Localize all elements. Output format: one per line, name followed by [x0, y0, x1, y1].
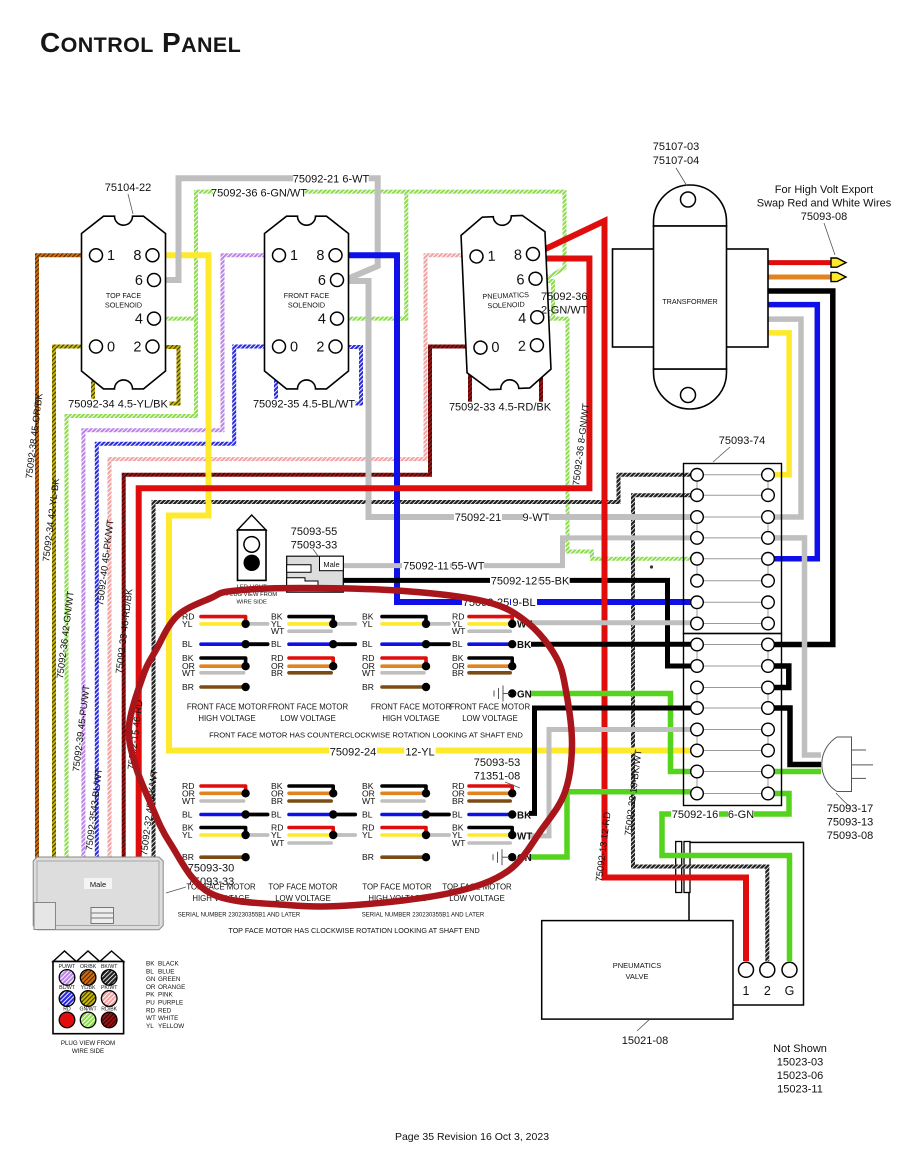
svg-text:BK: BK [146, 961, 155, 968]
wire 75092-16 6-GN green terminal row16 to valve G [662, 794, 790, 962]
wire label 75092-24 12-YL [329, 747, 377, 758]
wire black jumper terminal rows 10-11 right [774, 666, 789, 688]
terminal row 15 screws [691, 765, 704, 778]
svg-text:75093-17: 75093-17 [827, 803, 874, 815]
FRONT FACE pin 0 [273, 340, 286, 353]
svg-text:0: 0 [491, 340, 500, 356]
svg-text:PURPLE: PURPLE [158, 1000, 183, 1007]
wire 75092-24 12-YL yellow TOP pin8 to terminal row14 [158, 255, 691, 750]
svg-text:LOW VOLTAGE: LOW VOLTAGE [449, 894, 505, 903]
svg-text:0: 0 [290, 340, 298, 356]
plug pin RD [59, 1012, 75, 1028]
terminal column link rows 11-12 [696, 688, 698, 709]
wire label 75092-21 9-WT [454, 512, 502, 523]
svg-text:6: 6 [135, 273, 143, 289]
svg-text:0: 0 [107, 340, 115, 356]
svg-text:PK/WT: PK/WT [101, 985, 118, 991]
svg-text:FRONT FACE MOTOR: FRONT FACE MOTOR [187, 703, 268, 712]
transformer top mounting hole [681, 192, 696, 207]
wire gray WT splice lower to terminal row13 [529, 730, 691, 836]
svg-text:SERIAL NUMBER 230230355B1 AND: SERIAL NUMBER 230230355B1 AND LATER [362, 913, 485, 919]
svg-text:75093-55: 75093-55 [291, 526, 338, 538]
svg-text:RD: RD [63, 1006, 71, 1012]
TOP FACE pin 0 [90, 340, 103, 353]
TOP FACE pin 2 [146, 340, 159, 353]
svg-text:TOP FACE MOTOR: TOP FACE MOTOR [362, 883, 432, 892]
svg-text:71351-08: 71351-08 [474, 771, 521, 783]
transformer bottom mounting hole [681, 388, 696, 403]
svg-text:WT: WT [271, 838, 285, 848]
AC plug prong 3 [852, 777, 867, 779]
svg-text:YL: YL [146, 1023, 154, 1030]
svg-text:WIRE SIDE: WIRE SIDE [72, 1048, 104, 1055]
wire green terminal row15 to AC plug [774, 769, 821, 775]
wire green GN splice upper to terminal row15 [531, 694, 691, 772]
svg-text:75092-21 6-WT: 75092-21 6-WT [293, 174, 370, 186]
LED light symbol [238, 515, 267, 530]
svg-text:FRONT FACE: FRONT FACE [284, 291, 330, 300]
svg-text:GN/WT: GN/WT [79, 1006, 97, 1012]
wire 75092-11 55-WT gray male connector to terminal row4 [343, 538, 691, 566]
terminal row 2 screws [691, 489, 704, 502]
svg-text:RED: RED [158, 1007, 172, 1014]
svg-text:BR: BR [452, 796, 464, 806]
svg-text:BK/WT: BK/WT [101, 964, 118, 970]
svg-text:WT: WT [452, 838, 466, 848]
svg-text:PNEUMATICS: PNEUMATICS [613, 961, 662, 970]
terminal row 5 [703, 558, 762, 560]
wire 75092-13 12-RD red PNEU pin8 to valve terminal 1 [539, 221, 746, 961]
AC plug prong 2 [852, 764, 874, 766]
svg-text:GN: GN [146, 976, 156, 983]
svg-text:Swap Red and White Wires: Swap Red and White Wires [757, 198, 892, 210]
svg-text:75092-16: 75092-16 [672, 809, 719, 821]
svg-text:4: 4 [518, 311, 527, 327]
svg-text:BL: BL [452, 639, 463, 649]
wire 6-GN/WT top run between solenoids [196, 190, 565, 194]
wire label 75092-25 9-BL [462, 597, 510, 608]
wire GN/WT drop FRONT pin4 [344, 190, 406, 319]
svg-text:PINK: PINK [158, 992, 173, 999]
svg-text:BK: BK [517, 811, 531, 822]
valve inline connector plate 2 [684, 842, 690, 893]
svg-text:75092-13 12-RD: 75092-13 12-RD [594, 811, 613, 882]
svg-text:75092-36: 75092-36 [541, 291, 588, 303]
terminal row 11 [703, 687, 762, 689]
svg-text:75092-11: 75092-11 [403, 561, 449, 573]
plug pin OR/BK [80, 970, 96, 986]
svg-text:BK: BK [517, 640, 531, 651]
svg-text:1: 1 [743, 984, 750, 998]
wire 75092-39 45-PU/WT FRONT pin1 to male plug [83, 255, 272, 858]
svg-text:WT: WT [271, 626, 285, 636]
svg-text:WHITE: WHITE [158, 1015, 178, 1022]
svg-text:BL/WT: BL/WT [59, 985, 76, 991]
terminal row 13 screws [691, 723, 704, 736]
svg-text:8: 8 [133, 248, 141, 264]
svg-text:BLACK: BLACK [158, 961, 179, 968]
svg-text:CONTROL PANEL: CONTROL PANEL [40, 27, 241, 58]
wire 75092-21 9-WT gray FRONT pin6 to terminal row3 [344, 281, 691, 517]
FRONT FACE pin 2 [329, 340, 342, 353]
svg-text:6: 6 [318, 273, 326, 289]
svg-text:75107-04: 75107-04 [653, 155, 700, 167]
wire label 75092-36 6-GN/WT [213, 188, 305, 199]
PNEUMATICS pin 4 [530, 310, 544, 324]
terminal row 12 screws [691, 702, 704, 715]
wire 75092-36 8-GN/WT PNEU pin4 to terminal row5 [538, 319, 691, 559]
svg-text:FRONT FACE MOTOR: FRONT FACE MOTOR [371, 703, 452, 712]
terminal row 5 screws [691, 553, 704, 566]
wire 75092-34 4.5-YL/BK loop under TOP solenoid [93, 347, 179, 404]
svg-text:BR: BR [182, 682, 194, 692]
svg-text:75092-3543-BL/WT: 75092-3543-BL/WT [84, 768, 105, 852]
svg-text:PK: PK [146, 992, 155, 999]
plug pin PU/WT [59, 970, 75, 986]
svg-text:55-BK: 55-BK [539, 575, 570, 587]
wire 75092-36 2-GN/WT PNEU pin6 to pin4 [538, 281, 553, 319]
plug pin BK/WT [101, 970, 117, 986]
terminal row 8 [703, 623, 762, 625]
svg-text:WT: WT [182, 796, 196, 806]
svg-text:1: 1 [487, 249, 496, 265]
svg-text:BL: BL [271, 810, 282, 820]
terminal row 15 [703, 771, 762, 773]
svg-text:PU: PU [146, 1000, 155, 1007]
wire 75092-34 42-YL-BK TOP pin0 to male plug [54, 347, 90, 859]
terminal row 7 [703, 601, 762, 603]
terminal column link rows 1-2 [696, 475, 698, 495]
FRONT FACE pin 4 [331, 312, 344, 325]
valve terminal G [782, 962, 797, 977]
svg-text:1: 1 [107, 248, 115, 264]
plug pin GN/WT [80, 1012, 96, 1028]
PNEUMATICS pin 8 [526, 247, 540, 261]
svg-text:75093-13: 75093-13 [827, 817, 874, 829]
terminal row 9 screws [691, 638, 704, 651]
svg-text:BR: BR [362, 682, 374, 692]
GN splice dot upper [508, 689, 516, 697]
terminal column link rows 3-4 [696, 517, 698, 538]
svg-text:15023-03: 15023-03 [777, 1057, 824, 1069]
svg-text:6: 6 [516, 272, 525, 288]
svg-text:2: 2 [316, 340, 324, 356]
svg-text:WT: WT [182, 668, 196, 678]
terminal strip 75093-74 lower block [684, 634, 782, 806]
valve terminal 2 [760, 962, 775, 977]
svg-text:BR: BR [452, 668, 464, 678]
svg-text:2: 2 [518, 339, 527, 355]
terminal row 1 [703, 474, 762, 476]
terminal row 13 [703, 729, 762, 731]
svg-text:75092-33 46-RD/BK: 75092-33 46-RD/BK [114, 587, 135, 674]
wire gray terminal row4 to AC plug [774, 538, 821, 755]
spade terminal orange lead [831, 272, 846, 281]
wire 75092-33 4.5-RD/BK loop under PNEU solenoid [470, 351, 541, 407]
wire black BK splice lower to terminal row12 [529, 708, 691, 813]
svg-text:75092-12: 75092-12 [491, 575, 538, 587]
svg-text:GN: GN [517, 690, 532, 701]
svg-text:YL/BK: YL/BK [81, 985, 96, 991]
wire 75092-25 9-BL blue FRONT pin8 to terminal row7 [341, 255, 691, 602]
transformer mounting plate [613, 249, 769, 347]
svg-text:75093-08: 75093-08 [827, 830, 874, 842]
wire GN/WT stub TOP pin4 [161, 317, 198, 321]
PNEUMATICS pin 2 [530, 338, 544, 352]
terminal row 12 [703, 707, 762, 709]
TOP FACE pin 1 [90, 249, 103, 262]
svg-text:RD: RD [146, 1007, 156, 1014]
svg-text:FRONT FACE MOTOR HAS COUNTERCL: FRONT FACE MOTOR HAS COUNTERCLOCKWISE RO… [209, 731, 523, 740]
svg-text:SERIAL NUMBER 230230355B1 AND: SERIAL NUMBER 230230355B1 AND LATER [178, 913, 301, 919]
svg-text:6-GN: 6-GN [728, 809, 754, 821]
terminal column link rows 13-14 [696, 730, 698, 751]
svg-text:BL: BL [182, 810, 193, 820]
svg-text:BR: BR [271, 796, 283, 806]
PNEUMATICS pin 6 [529, 272, 543, 286]
wire transformer black lead to terminal row9 right [768, 291, 833, 645]
svg-text:9-WT: 9-WT [523, 512, 550, 524]
svg-text:8: 8 [514, 247, 523, 263]
wire black BK splice to terminal row9 [531, 642, 691, 647]
svg-text:TOP FACE MOTOR: TOP FACE MOTOR [268, 883, 338, 892]
terminal row 10 screws [691, 660, 704, 673]
svg-text:Male: Male [90, 880, 106, 889]
TOP FACE pin 6 [148, 274, 161, 287]
terminal row 16 [703, 793, 762, 795]
AC power plug 75093-17 [822, 737, 852, 792]
svg-text:BR: BR [271, 668, 283, 678]
FRONT FACE pin 8 [329, 249, 342, 262]
wire label 75092-35 4.5-BL/WT [253, 399, 356, 410]
svg-text:PU/WT: PU/WT [59, 964, 77, 970]
terminal row 8 screws [691, 617, 704, 630]
svg-text:OR/BK: OR/BK [80, 964, 97, 970]
svg-text:75092-33 4.5-RD/BK: 75092-33 4.5-RD/BK [449, 402, 552, 414]
svg-text:WT: WT [517, 832, 532, 843]
male connector 75093-55 [287, 556, 344, 592]
svg-text:G: G [785, 984, 795, 998]
svg-text:BLUE: BLUE [158, 968, 174, 975]
plug view 9-pin connector [53, 951, 124, 962]
PNEUMATICS pin 1 [470, 250, 484, 264]
FRONT FACE pin 1 [273, 249, 286, 262]
red highlight oval around motor splice area [129, 588, 572, 907]
spade terminal red lead [831, 258, 846, 267]
terminal row 7 screws [691, 596, 704, 609]
wire 75092-40 45-PK/WT PNEU pin1 to male plug [110, 255, 473, 858]
svg-text:Page 35 Revision 16 Oct 3, 20: Page 35 Revision 16 Oct 3, 2023 [395, 1131, 549, 1143]
svg-text:TOP FACE: TOP FACE [106, 291, 141, 300]
svg-text:75093-53: 75093-53 [474, 757, 521, 769]
svg-text:HIGH VOLTAGE: HIGH VOLTAGE [382, 714, 439, 723]
wire 75092-21 6-WT gray TOP pin6 to FRONT pin6 [160, 178, 378, 280]
valve inline connector plate 1 [676, 842, 682, 893]
stray dot artifact [650, 565, 653, 568]
svg-text:4: 4 [318, 312, 326, 328]
TOP FACE pin 4 [148, 312, 161, 325]
AC plug leader [836, 793, 851, 807]
svg-text:SOLENOID: SOLENOID [105, 301, 142, 310]
svg-text:OR: OR [146, 984, 156, 991]
terminal row 4 screws [691, 532, 704, 545]
FRONT FACE pin 6 [331, 274, 344, 287]
svg-text:75093-08: 75093-08 [801, 211, 848, 223]
svg-text:75104-22: 75104-22 [105, 182, 152, 194]
male connector housing (bottom left) [33, 857, 163, 930]
PNEUMATICS pin 0 [474, 341, 488, 355]
svg-text:LOW VOLTAGE: LOW VOLTAGE [280, 714, 336, 723]
wire label 75092-34 4.5-YL/BK [67, 399, 170, 410]
svg-text:RD/BK: RD/BK [101, 1006, 117, 1012]
plug pin RD/BK [101, 1012, 117, 1028]
GN splice dot lower [508, 853, 516, 861]
svg-text:BL: BL [146, 968, 154, 975]
svg-text:BL: BL [452, 810, 463, 820]
svg-text:55-WT: 55-WT [452, 561, 485, 573]
terminal row 9 [703, 644, 762, 646]
wire label 75092-11 55-WT [402, 561, 450, 572]
svg-text:8: 8 [316, 248, 324, 264]
svg-text:TOP FACE MOTOR HAS CLOCKWISE R: TOP FACE MOTOR HAS CLOCKWISE ROTATION LO… [228, 926, 479, 935]
svg-text:75093-74: 75093-74 [719, 435, 766, 447]
75093-55 leader [313, 549, 318, 556]
terminal row 14 [703, 750, 762, 752]
svg-text:WT: WT [362, 668, 376, 678]
wire transformer yellow lead to terminal row1 right [768, 333, 789, 475]
svg-text:SOLENOID: SOLENOID [487, 300, 525, 311]
svg-text:YL: YL [182, 830, 193, 840]
svg-text:YL: YL [362, 619, 373, 629]
svg-text:FRONT FACE MOTOR: FRONT FACE MOTOR [268, 703, 349, 712]
pneumatics valve terminal box [689, 842, 804, 1005]
wire 75092-12 55-BK black male connector to terminal row10 [343, 580, 691, 666]
PNEUMATICS solenoid body [460, 214, 551, 390]
svg-text:75092-21: 75092-21 [455, 512, 502, 524]
wire transformer gray lead to terminal row3 right [768, 319, 801, 517]
svg-text:TRANSFORMER: TRANSFORMER [662, 297, 718, 306]
svg-text:WT: WT [452, 626, 466, 636]
svg-text:75107-03: 75107-03 [653, 141, 700, 153]
ground symbol [492, 854, 494, 860]
wire label 75092-33 4.5-RD/BK [449, 402, 552, 413]
wire gray WT splice to terminal row8 [531, 620, 691, 625]
svg-text:75092-34 4.5-YL/BK: 75092-34 4.5-YL/BK [68, 399, 168, 411]
svg-text:BL: BL [362, 810, 373, 820]
svg-text:75092-35 4.5-BL/WT: 75092-35 4.5-BL/WT [253, 399, 355, 411]
svg-text:ORANGE: ORANGE [158, 984, 185, 991]
wire 75092-33 46-RD/BK PNEU pin0 to male plug [124, 347, 466, 859]
wire label 75092-16 6-GN [671, 809, 719, 820]
svg-text:YELLOW: YELLOW [158, 1023, 184, 1030]
terminal row 6 screws [691, 575, 704, 588]
svg-text:75093-33: 75093-33 [291, 540, 338, 552]
terminal column link rows 5-6 [696, 559, 698, 581]
svg-text:BR: BR [362, 852, 374, 862]
svg-text:YL: YL [182, 619, 193, 629]
svg-text:15021-08: 15021-08 [622, 1035, 669, 1047]
terminal row 10 [703, 665, 762, 667]
svg-text:VALVE: VALVE [625, 972, 648, 981]
svg-text:WIRE SIDE: WIRE SIDE [237, 600, 267, 606]
svg-text:75092-34 42-YL-BK: 75092-34 42-YL-BK [41, 477, 62, 562]
terminal row 14 screws [691, 744, 704, 757]
terminal row 16 screws [691, 787, 704, 800]
terminal row 6 [703, 580, 762, 582]
valve terminal 1 [739, 962, 754, 977]
terminal row 4 [703, 537, 762, 539]
svg-text:BL: BL [271, 639, 282, 649]
svg-text:PLUG VIEW FROM: PLUG VIEW FROM [61, 1040, 115, 1047]
wire transformer blue lead to terminal row5 right [768, 305, 817, 559]
wire 75092-35 43-BL/WT FRONT pin0 to male plug [97, 347, 273, 859]
svg-text:75093-30: 75093-30 [188, 863, 235, 875]
svg-text:Male: Male [323, 560, 339, 569]
terminal column link rows 9-10 [696, 645, 698, 667]
wire transformer orange lead to spade [768, 275, 832, 280]
svg-text:4: 4 [135, 312, 143, 328]
svg-text:2: 2 [133, 340, 141, 356]
svg-text:BL: BL [362, 639, 373, 649]
terminal row 1 screws [691, 469, 704, 482]
svg-text:HIGH VOLTAGE: HIGH VOLTAGE [198, 714, 255, 723]
svg-text:WT: WT [362, 796, 376, 806]
transformer body 75107-03 [654, 185, 727, 226]
wire 75092-32 10-BK/WT terminal row2 to valve terminal 2 [633, 495, 767, 961]
terminal row 11 screws [691, 681, 704, 694]
svg-text:15023-06: 15023-06 [777, 1070, 824, 1082]
svg-text:Not Shown: Not Shown [773, 1043, 827, 1055]
TOP FACE pin 8 [146, 249, 159, 262]
svg-text:75092-39 45-PU/WT: 75092-39 45-PU/WT [71, 684, 93, 772]
wire 75092-35 4.5-BL/WT loop under FRONT solenoid [276, 347, 361, 404]
15021-08 leader [637, 1020, 649, 1031]
svg-text:BL: BL [182, 639, 193, 649]
terminal column link rows 7-8 [696, 602, 698, 623]
terminal row 3 [703, 516, 762, 518]
plug pin PK/WT [101, 991, 117, 1007]
svg-text:YL: YL [362, 830, 373, 840]
wire 75092-15 46-RD red PNEU pin8 to male plug [139, 259, 590, 859]
pneumatics valve body 15021-08 [542, 921, 733, 1020]
wire 42-GN/WT vertical to male plug [67, 190, 197, 858]
svg-text:75092-36 42-GN/WT: 75092-36 42-GN/WT [55, 590, 77, 679]
terminal row 3 screws [691, 511, 704, 524]
wire green GN splice lower to terminal row16 [529, 792, 691, 857]
wire label 75092-12 55-BK [490, 576, 538, 587]
svg-text:75092-36 6-GN/WT: 75092-36 6-GN/WT [211, 188, 307, 200]
svg-text:2: 2 [764, 984, 771, 998]
svg-text:LOW VOLTAGE: LOW VOLTAGE [462, 714, 518, 723]
svg-text:15023-11: 15023-11 [777, 1084, 823, 1096]
svg-text:2-GN/WT: 2-GN/WT [541, 305, 588, 317]
svg-text:WT: WT [146, 1015, 156, 1022]
TOP FACE solenoid body [82, 216, 166, 389]
wire label 75092-21 6-WT [293, 174, 369, 185]
plug pin BL/WT [59, 991, 75, 1007]
ground symbol [493, 691, 495, 697]
terminal strip 75093-74 upper block [684, 464, 782, 634]
svg-text:GREEN: GREEN [158, 976, 181, 983]
wire GN/WT drop PNEU pin6 [544, 190, 565, 280]
svg-text:75092-24: 75092-24 [330, 747, 377, 759]
svg-text:SOLENOID: SOLENOID [288, 301, 325, 310]
svg-text:1: 1 [290, 248, 298, 264]
svg-text:75092-38 45-OR/BK: 75092-38 45-OR/BK [24, 392, 45, 479]
svg-text:9-BL: 9-BL [512, 597, 535, 609]
wire 75092-32 45-BK/WT terminal row1 to male plug [154, 475, 691, 858]
svg-text:12-YL: 12-YL [405, 747, 434, 759]
